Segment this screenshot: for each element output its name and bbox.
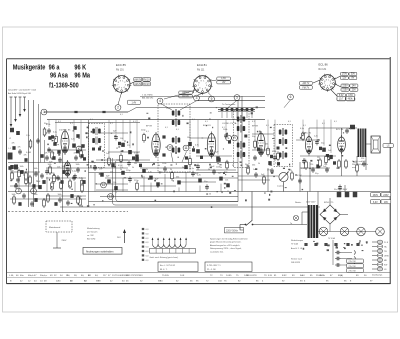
svg-text:96 a: 96 a	[49, 64, 60, 72]
svg-text:0,5M: 0,5M	[134, 152, 139, 154]
component block b5	[118, 142, 121, 145]
plug contact 2	[354, 257, 355, 261]
capacitor Cf10	[76, 167, 80, 173]
svg-text:7V 0,3A: 7V 0,3A	[291, 243, 298, 246]
svg-text:4,7k: 4,7k	[148, 172, 152, 174]
resistor Rd0	[247, 165, 250, 175]
transformer secondary wire	[317, 192, 319, 239]
heater table mark 6	[142, 250, 144, 252]
svg-text:100k: 100k	[20, 166, 24, 168]
keyboard stub wire	[241, 112, 243, 118]
IFT3 primary winding	[279, 128, 287, 136]
component block b16	[277, 162, 280, 165]
node K	[76, 146, 82, 152]
resistor Rc9	[81, 178, 84, 188]
ECL86 anode wire	[341, 128, 343, 137]
svg-text:47k: 47k	[74, 153, 77, 155]
IFT1 secondary winding	[92, 137, 100, 145]
svg-text:220: 220	[354, 162, 357, 164]
svg-text:AM 460 kHz: AM 460 kHz	[142, 97, 153, 100]
capacitor C18	[273, 155, 277, 161]
capacitor Ce5	[74, 155, 78, 161]
Änderungen vorbehalten box	[83, 248, 122, 255]
component block b11	[200, 156, 203, 159]
component block b10	[192, 148, 195, 151]
resistor Rb3	[120, 153, 123, 163]
svg-text:3: 3	[196, 96, 198, 100]
svg-text:Lautst.: Lautst.	[277, 185, 284, 188]
resistor R6	[108, 156, 111, 166]
svg-text:5k: 5k	[170, 169, 172, 171]
svg-text:L: L	[228, 136, 230, 140]
dial lamp La4	[376, 227, 385, 236]
leader node 6 to rail	[284, 100, 291, 108]
volume potentiometer P1	[279, 172, 289, 182]
capacitor C15	[224, 133, 228, 139]
speaker LS	[371, 136, 380, 153]
svg-text:f1-1369-500: f1-1369-500	[49, 82, 79, 90]
svg-text:12V: 12V	[342, 78, 347, 80]
stub to ground rail	[46, 177, 48, 192]
title 96Ma	[74, 72, 90, 80]
table row 2 rule	[7, 276, 391, 278]
component block osc0	[48, 136, 51, 140]
svg-text:96 Asa: 96 Asa	[50, 72, 68, 80]
node 13	[108, 194, 114, 200]
dial line rail	[128, 108, 265, 112]
svg-text:ca. 1W: ca. 1W	[87, 235, 94, 237]
connector jack 2	[372, 245, 387, 249]
drop wire x300	[299, 162, 301, 192]
detector enclosure inner corner	[116, 161, 238, 202]
primary lead 2	[302, 211, 308, 213]
svg-text:6: 6	[290, 95, 292, 99]
plug contact 1	[354, 251, 355, 255]
node 9	[209, 96, 215, 102]
capacitor C51	[345, 128, 349, 134]
wire segment h21	[238, 175, 279, 177]
resistor Re0	[11, 171, 14, 181]
stub to ground rail	[164, 174, 166, 192]
svg-text:Abweichungen bis ±15% möglich.: Abweichungen bis ±15% möglich.	[210, 244, 240, 247]
wire segment h11	[140, 167, 186, 169]
table row 2 text	[10, 280, 352, 282]
wire segment h20	[96, 189, 128, 191]
svg-text:60,: 60,	[81, 275, 84, 277]
svg-text:47k: 47k	[24, 155, 27, 157]
tube V1b ECC85 oscillator	[64, 160, 71, 178]
svg-text:Anschl. 2. LS: Anschl. 2. LS	[291, 247, 303, 250]
capacitor Ch13	[66, 200, 70, 206]
leader socket2 to node 9	[208, 93, 212, 97]
svg-text:225V: 225V	[342, 85, 348, 87]
capacitor Cd5	[298, 178, 302, 184]
stub to ground rail	[227, 190, 229, 191]
IFT3 tertiary winding	[279, 151, 287, 159]
rail series resistor	[74, 111, 77, 113]
wire ECL86 pin to label	[335, 84, 341, 87]
connector jack 4	[372, 254, 389, 258]
svg-text:50+50µF 350V: 50+50µF 350V	[334, 189, 348, 191]
component block e4	[52, 156, 55, 160]
svg-text:ECL 86: ECL 86	[336, 129, 344, 131]
svg-text:Gedr. nach Störung (gestr. bz: Gedr. nach Störung (gestr. bzw.)	[150, 256, 179, 259]
Motorboard dashed box	[46, 221, 72, 232]
svg-text:460k: 460k	[348, 99, 354, 101]
svg-text:20V: 20V	[352, 89, 357, 91]
svg-text:K.R.: K.R.	[268, 275, 273, 277]
svg-text:8V: 8V	[351, 78, 354, 80]
ratio det secondary winding	[172, 136, 180, 144]
svg-text:5k: 5k	[246, 165, 248, 167]
wire ECL86 pin to lower label	[331, 90, 337, 96]
IF filter III dashed box	[274, 125, 293, 167]
psu component 3	[324, 243, 327, 246]
resistor Rc6	[60, 180, 63, 190]
antenna lead 3	[19, 97, 21, 114]
svg-text:0,1: 0,1	[288, 121, 291, 123]
resistor Rc16	[136, 181, 139, 191]
leader socket2 to node 4	[164, 90, 196, 99]
svg-text:47k: 47k	[45, 153, 48, 155]
antenna lead 2	[15, 97, 17, 119]
svg-text:7V 0,3A: 7V 0,3A	[328, 237, 335, 240]
dial lamp La1	[319, 227, 328, 236]
label block 7000pF	[350, 125, 355, 130]
svg-text:am Tonarm: am Tonarm	[87, 231, 98, 234]
svg-text:0,1: 0,1	[58, 121, 61, 123]
coupling capacitor Ck1	[335, 251, 341, 255]
svg-text:Lautstärke min.: Lautstärke min.	[210, 250, 224, 253]
connector Ta circle	[293, 215, 298, 220]
arrow symbol up	[117, 229, 126, 243]
capacitor Cc4	[45, 169, 49, 175]
svg-text:5k: 5k	[220, 167, 222, 169]
component block 12	[188, 142, 192, 146]
svg-text:27k 1W: 27k 1W	[349, 266, 356, 268]
svg-text:27k 1W: 27k 1W	[349, 261, 356, 263]
chassis bottom rail	[60, 206, 320, 208]
cap to jack wire	[341, 258, 352, 260]
svg-text:Wkl. 5000pF f. Rö: Wkl. 5000pF f. Rö	[352, 164, 369, 166]
svg-text:Musikgeräte: Musikgeräte	[13, 64, 46, 72]
keyboard bus heavy	[218, 109, 255, 111]
connector jack 5	[372, 258, 388, 262]
capacitor C2	[47, 128, 51, 134]
capacitor C7	[114, 135, 118, 141]
component block c5	[135, 155, 138, 159]
resistor Re3	[29, 175, 32, 185]
B+ feed wire	[344, 185, 346, 192]
svg-text:0,1: 0,1	[146, 131, 149, 133]
component block f2	[20, 170, 23, 174]
component block d12	[107, 179, 111, 183]
component stub wire	[316, 120, 318, 139]
resistor Rf2	[319, 158, 322, 168]
node 1	[41, 109, 47, 115]
wire segment h3	[116, 159, 150, 161]
resistor Rd4	[291, 171, 294, 181]
svg-text:Motorleistung: Motorleistung	[87, 227, 100, 230]
pot to ground wire	[283, 182, 285, 192]
connector jack 1	[372, 240, 389, 244]
svg-text:2,2k: 2,2k	[79, 177, 83, 179]
cap to jack wire	[341, 264, 352, 266]
svg-text:Spannungen mit Grundig-Röhrenv: Spannungen mit Grundig-Röhrenvoltmeter	[210, 238, 248, 241]
wire segment h24	[96, 159, 128, 161]
resistor Re6	[49, 165, 52, 175]
leader node 4 to ratio det	[161, 104, 173, 111]
IFT2 secondary winding 2	[237, 151, 245, 159]
schematic frame border	[7, 57, 391, 284]
IF label boxes	[337, 96, 354, 100]
antenna coil L1	[10, 128, 14, 133]
voltage label grid ECC85	[134, 77, 151, 86]
wire socket pin to label	[211, 80, 217, 81]
psu label boxes 2	[371, 200, 391, 204]
svg-text:0,1: 0,1	[266, 125, 269, 127]
svg-text:5k: 5k	[270, 165, 272, 167]
wire segment h7	[252, 149, 270, 151]
antenna lead 1	[10, 97, 12, 124]
node R	[232, 135, 238, 141]
title 96K	[74, 64, 86, 72]
svg-text:2.LS: 2.LS	[384, 242, 389, 244]
node 5	[234, 95, 240, 101]
tube V3 ECH81 mixer	[207, 132, 215, 159]
EABC80 anode wire	[308, 128, 310, 136]
svg-text:21. 4. 58: 21. 4. 58	[207, 269, 216, 271]
svg-text:5k: 5k	[108, 165, 110, 167]
capacitor Ce3	[45, 155, 49, 161]
svg-text:47k: 47k	[12, 143, 15, 145]
component block f17	[70, 194, 73, 198]
component block 8	[121, 143, 125, 147]
component block c14	[316, 164, 319, 168]
output top rail	[309, 127, 357, 129]
svg-text:0,1: 0,1	[252, 121, 255, 123]
resistor R5	[80, 149, 83, 159]
antenna terminal arrow 2	[14, 119, 17, 122]
enclosure horizontal 4	[89, 201, 239, 203]
component stub wire	[225, 120, 227, 132]
voltage label grid ECL86 lower right	[337, 94, 355, 101]
component block 10	[135, 157, 139, 161]
svg-text:56k: 56k	[176, 176, 179, 178]
enclosure right vertical	[237, 100, 239, 202]
svg-text:FM 2V: FM 2V	[143, 84, 150, 86]
svg-text:11: 11	[184, 146, 188, 150]
svg-text:58,: 58,	[74, 275, 77, 277]
svg-text:30V: 30V	[351, 74, 356, 76]
stub to ground rail	[143, 176, 145, 192]
resistor Rc1	[18, 169, 21, 179]
capacitor Cc7	[66, 167, 70, 173]
svg-text:Bl. 4. 7.: Bl. 4. 7.	[160, 269, 168, 271]
component block 13	[196, 149, 200, 153]
wire segment h14	[46, 177, 86, 179]
wire segment h22	[238, 179, 270, 181]
keyboard contact	[251, 108, 254, 111]
IFT2 primary winding 2	[237, 125, 245, 133]
resistor R41	[338, 159, 341, 169]
svg-text:100k: 100k	[34, 168, 38, 170]
resistor Rb0	[51, 150, 54, 160]
component block e0	[12, 146, 15, 150]
node 12	[101, 182, 107, 188]
keyboard contact	[241, 108, 244, 111]
wire segment h19	[46, 195, 86, 197]
svg-text:5k: 5k	[120, 169, 122, 171]
wire segment h1	[100, 132, 128, 134]
heater table mark 1	[142, 228, 144, 230]
resistor Rb6	[189, 157, 192, 167]
transformer top wire	[307, 192, 309, 206]
svg-text:2,2k: 2,2k	[71, 139, 75, 141]
switch to mains wire	[240, 224, 246, 226]
ratio det trimmer cap	[162, 135, 165, 138]
capacitor Cf4	[34, 171, 38, 177]
keyboard stub wire	[226, 112, 228, 118]
component block g3	[32, 184, 35, 188]
svg-text:4,7k: 4,7k	[195, 144, 199, 146]
dial lamp La2	[340, 227, 349, 236]
resistor R1	[29, 139, 32, 149]
component stub wire	[267, 120, 269, 147]
svg-text:47k: 47k	[52, 153, 55, 155]
stub to ground rail	[94, 173, 96, 192]
svg-text:0,1: 0,1	[232, 119, 235, 121]
capacitor Cc8	[73, 174, 77, 180]
svg-text:U K M L Ph TA: U K M L Ph TA	[222, 122, 237, 125]
component block b19	[326, 154, 329, 157]
component block d25	[198, 179, 202, 183]
component block e6	[80, 154, 83, 158]
svg-text:0,1: 0,1	[110, 123, 113, 125]
component block 22	[329, 155, 333, 159]
keyboard contact	[226, 108, 229, 111]
component block 21	[322, 148, 326, 152]
capacitor Cb7	[196, 164, 200, 170]
resistor Re18	[79, 197, 82, 207]
rail to mixer	[196, 100, 265, 102]
voltage label grid ECH81 right	[217, 77, 231, 84]
switch drop wire	[251, 192, 253, 222]
tube V2 EF89 IF amp	[152, 132, 160, 158]
svg-text:100k: 100k	[34, 194, 38, 196]
antenna coil L2	[16, 131, 20, 135]
svg-text:-8V: -8V	[222, 82, 226, 84]
component stub wire	[48, 120, 50, 127]
svg-text:47k: 47k	[80, 151, 83, 153]
component block f11	[82, 180, 85, 184]
component block 4	[72, 144, 76, 148]
svg-text:56k: 56k	[252, 165, 255, 167]
capacitor Cf16	[58, 197, 62, 203]
mains label box	[225, 228, 244, 233]
component block f8	[62, 170, 65, 174]
antenna terminal bar 2	[14, 96, 17, 98]
heater table mark 3	[142, 237, 144, 239]
component stub wire	[254, 120, 256, 140]
component block b14	[257, 148, 260, 151]
wire segment h8	[296, 139, 320, 141]
title part number f1-1369-500	[49, 82, 79, 90]
psu component 6	[356, 243, 359, 246]
component block b15	[270, 155, 273, 158]
wire segment h10	[46, 167, 128, 169]
svg-text:0,1: 0,1	[90, 119, 93, 121]
electrolytic capacitor C62	[353, 192, 358, 198]
svg-text:B250 C75: B250 C75	[324, 202, 334, 204]
svg-text:220: 220	[324, 164, 327, 166]
wire segment h2	[108, 151, 140, 153]
svg-text:0,1: 0,1	[176, 129, 179, 131]
wave band switch block	[8, 153, 13, 160]
svg-text:0,1: 0,1	[70, 123, 73, 125]
tube socket ECL86 bottom view	[318, 74, 336, 92]
wire ECL86 pin to right label	[335, 76, 341, 79]
wire segment h5	[196, 155, 232, 157]
component stub wire	[302, 120, 304, 132]
drop wire x268	[267, 168, 269, 192]
resistor Rg5	[51, 181, 54, 191]
enclosure horizontal 3	[100, 196, 238, 198]
keyboard contact	[246, 108, 249, 111]
voltage label grid ECH81 left	[179, 91, 193, 98]
svg-text:2,2k: 2,2k	[197, 175, 201, 177]
keyboard contact	[221, 108, 224, 111]
component block d14	[121, 171, 125, 175]
electrolytic capacitor C61	[345, 192, 350, 198]
svg-text:27k: 27k	[127, 145, 130, 147]
wire segment h23	[300, 167, 330, 169]
svg-text:220: 220	[361, 158, 364, 160]
component block osc2	[76, 134, 79, 138]
wire socket pin to left label	[193, 88, 194, 93]
IF transformer filter I dashed box	[89, 124, 105, 168]
heater table mark 4	[142, 241, 144, 243]
component block e2	[24, 158, 27, 162]
capacitor Cc24	[191, 171, 195, 177]
keyboard stub wire	[251, 112, 253, 118]
component block b0	[51, 135, 54, 138]
svg-text:0,1: 0,1	[165, 127, 168, 129]
node 10	[167, 145, 173, 151]
long vertical wire 3	[38, 104, 40, 188]
IFT2 trimmer	[244, 135, 247, 138]
component block osc4	[57, 150, 60, 154]
svg-text:MD: MD	[384, 260, 388, 262]
rectifier bridge Gl1	[320, 198, 348, 224]
capacitor Cd3	[270, 168, 274, 174]
capacitor Cf13	[22, 193, 26, 199]
component block g9	[18, 202, 21, 206]
primary lead	[301, 212, 303, 225]
svg-text:ECL 86: ECL 86	[319, 63, 329, 67]
svg-text:10,7: 10,7	[339, 99, 344, 101]
svg-text:AM 0V: AM 0V	[134, 78, 141, 81]
component block b8	[139, 164, 142, 167]
ratio det lead 10	[171, 153, 173, 163]
component stub wire	[274, 120, 276, 154]
keyboard bus light	[218, 110, 255, 112]
stub to ground rail	[150, 183, 152, 192]
svg-text:EF 89: EF 89	[146, 126, 153, 128]
svg-text:5k: 5k	[146, 169, 148, 171]
right small label box 3	[347, 268, 364, 272]
svg-text:AM 2V: AM 2V	[134, 83, 141, 86]
